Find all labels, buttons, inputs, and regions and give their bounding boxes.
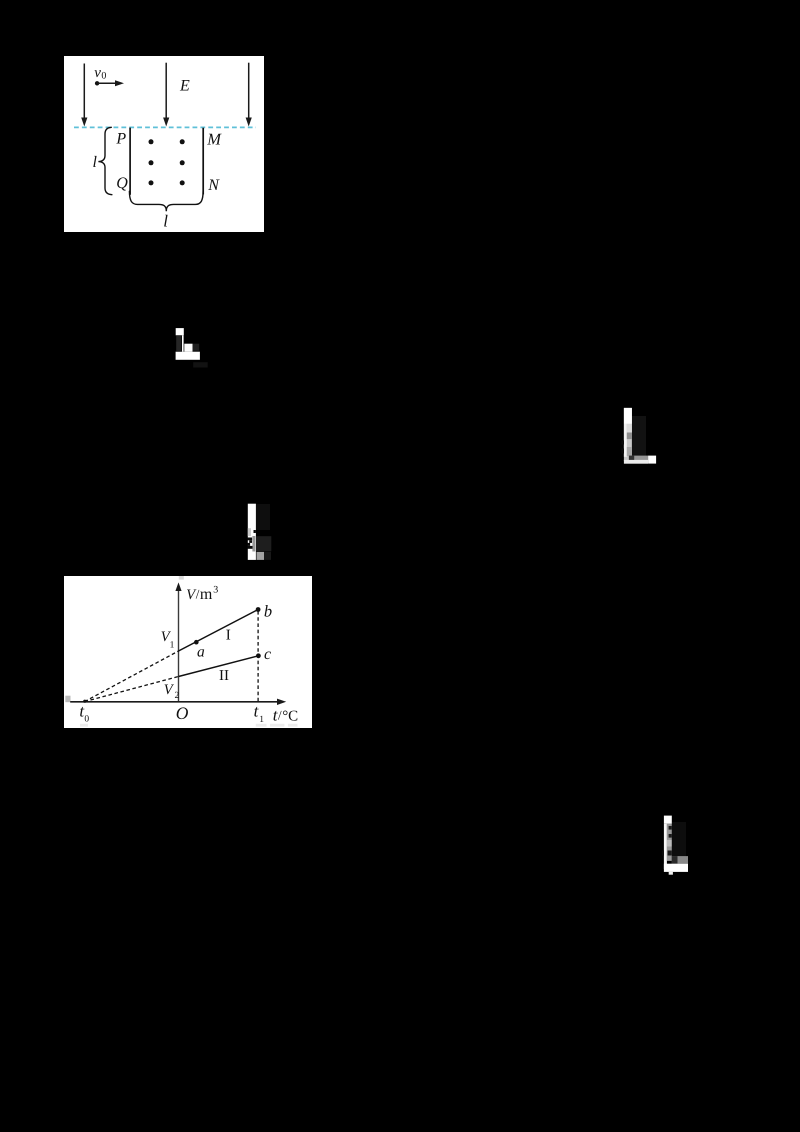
figure: V-t graph (panel 2) (64, 576, 312, 728)
svg-text:M: M (206, 129, 222, 148)
field arrow middle (163, 63, 169, 127)
field dots (2 columns x 3 rows) (149, 139, 185, 185)
fragment D (inverted formula remnant) (660, 812, 704, 876)
svg-text:°C: °C (282, 708, 298, 724)
svg-text:1: 1 (170, 641, 175, 651)
field arrow right (246, 63, 252, 127)
svg-text:c: c (264, 646, 271, 663)
line I (179, 610, 259, 652)
dashed vertical at t1 (257, 611, 259, 702)
svg-text:0: 0 (84, 715, 89, 725)
field arrow left (81, 64, 87, 127)
left curly brace (98, 127, 112, 194)
line II (179, 656, 259, 677)
plate line PQ (left) (129, 128, 131, 195)
svg-text:b: b (264, 602, 272, 621)
svg-text:l: l (93, 154, 98, 171)
point a (194, 640, 199, 645)
svg-text:v: v (94, 65, 101, 81)
svg-text:Q: Q (116, 175, 128, 192)
svg-text:P: P (115, 131, 126, 148)
particle dot (95, 81, 99, 85)
figure: charged-particle entering field region (panel 1) (64, 56, 264, 232)
fragment C (inverted formula remnant) (244, 500, 276, 564)
y axis (175, 582, 181, 702)
svg-text:3: 3 (213, 585, 218, 596)
point c (256, 653, 261, 658)
fragment B (inverted formula remnant) (620, 404, 664, 472)
svg-text:O: O (176, 703, 189, 723)
dashed extrapolation to V1 (85, 651, 179, 702)
point b (256, 607, 261, 612)
plate line MN (right) (202, 128, 204, 195)
gray handle square left (65, 696, 70, 703)
svg-text:0: 0 (101, 71, 106, 82)
dashed extrapolation to V2 (85, 677, 179, 702)
svg-text:m: m (200, 586, 213, 603)
svg-text:E: E (179, 78, 190, 95)
fragment A (inverted formula remnant) (172, 324, 212, 372)
panel background (64, 576, 312, 728)
svg-text:N: N (207, 177, 220, 194)
svg-text:1: 1 (259, 715, 264, 725)
svg-text:I: I (226, 627, 231, 643)
svg-text:2: 2 (175, 691, 180, 701)
svg-text:a: a (197, 643, 205, 660)
svg-text:II: II (219, 668, 229, 684)
gray nub above y axis (179, 576, 184, 580)
velocity arrow v0 (97, 80, 124, 86)
svg-text:l: l (163, 211, 168, 230)
bottom curly brace (129, 191, 203, 212)
faint bottom strips (80, 724, 298, 727)
x axis (70, 699, 286, 705)
point t0 (83, 700, 86, 703)
panel background (64, 56, 264, 232)
boundary dashed line (cyan) (74, 126, 256, 128)
